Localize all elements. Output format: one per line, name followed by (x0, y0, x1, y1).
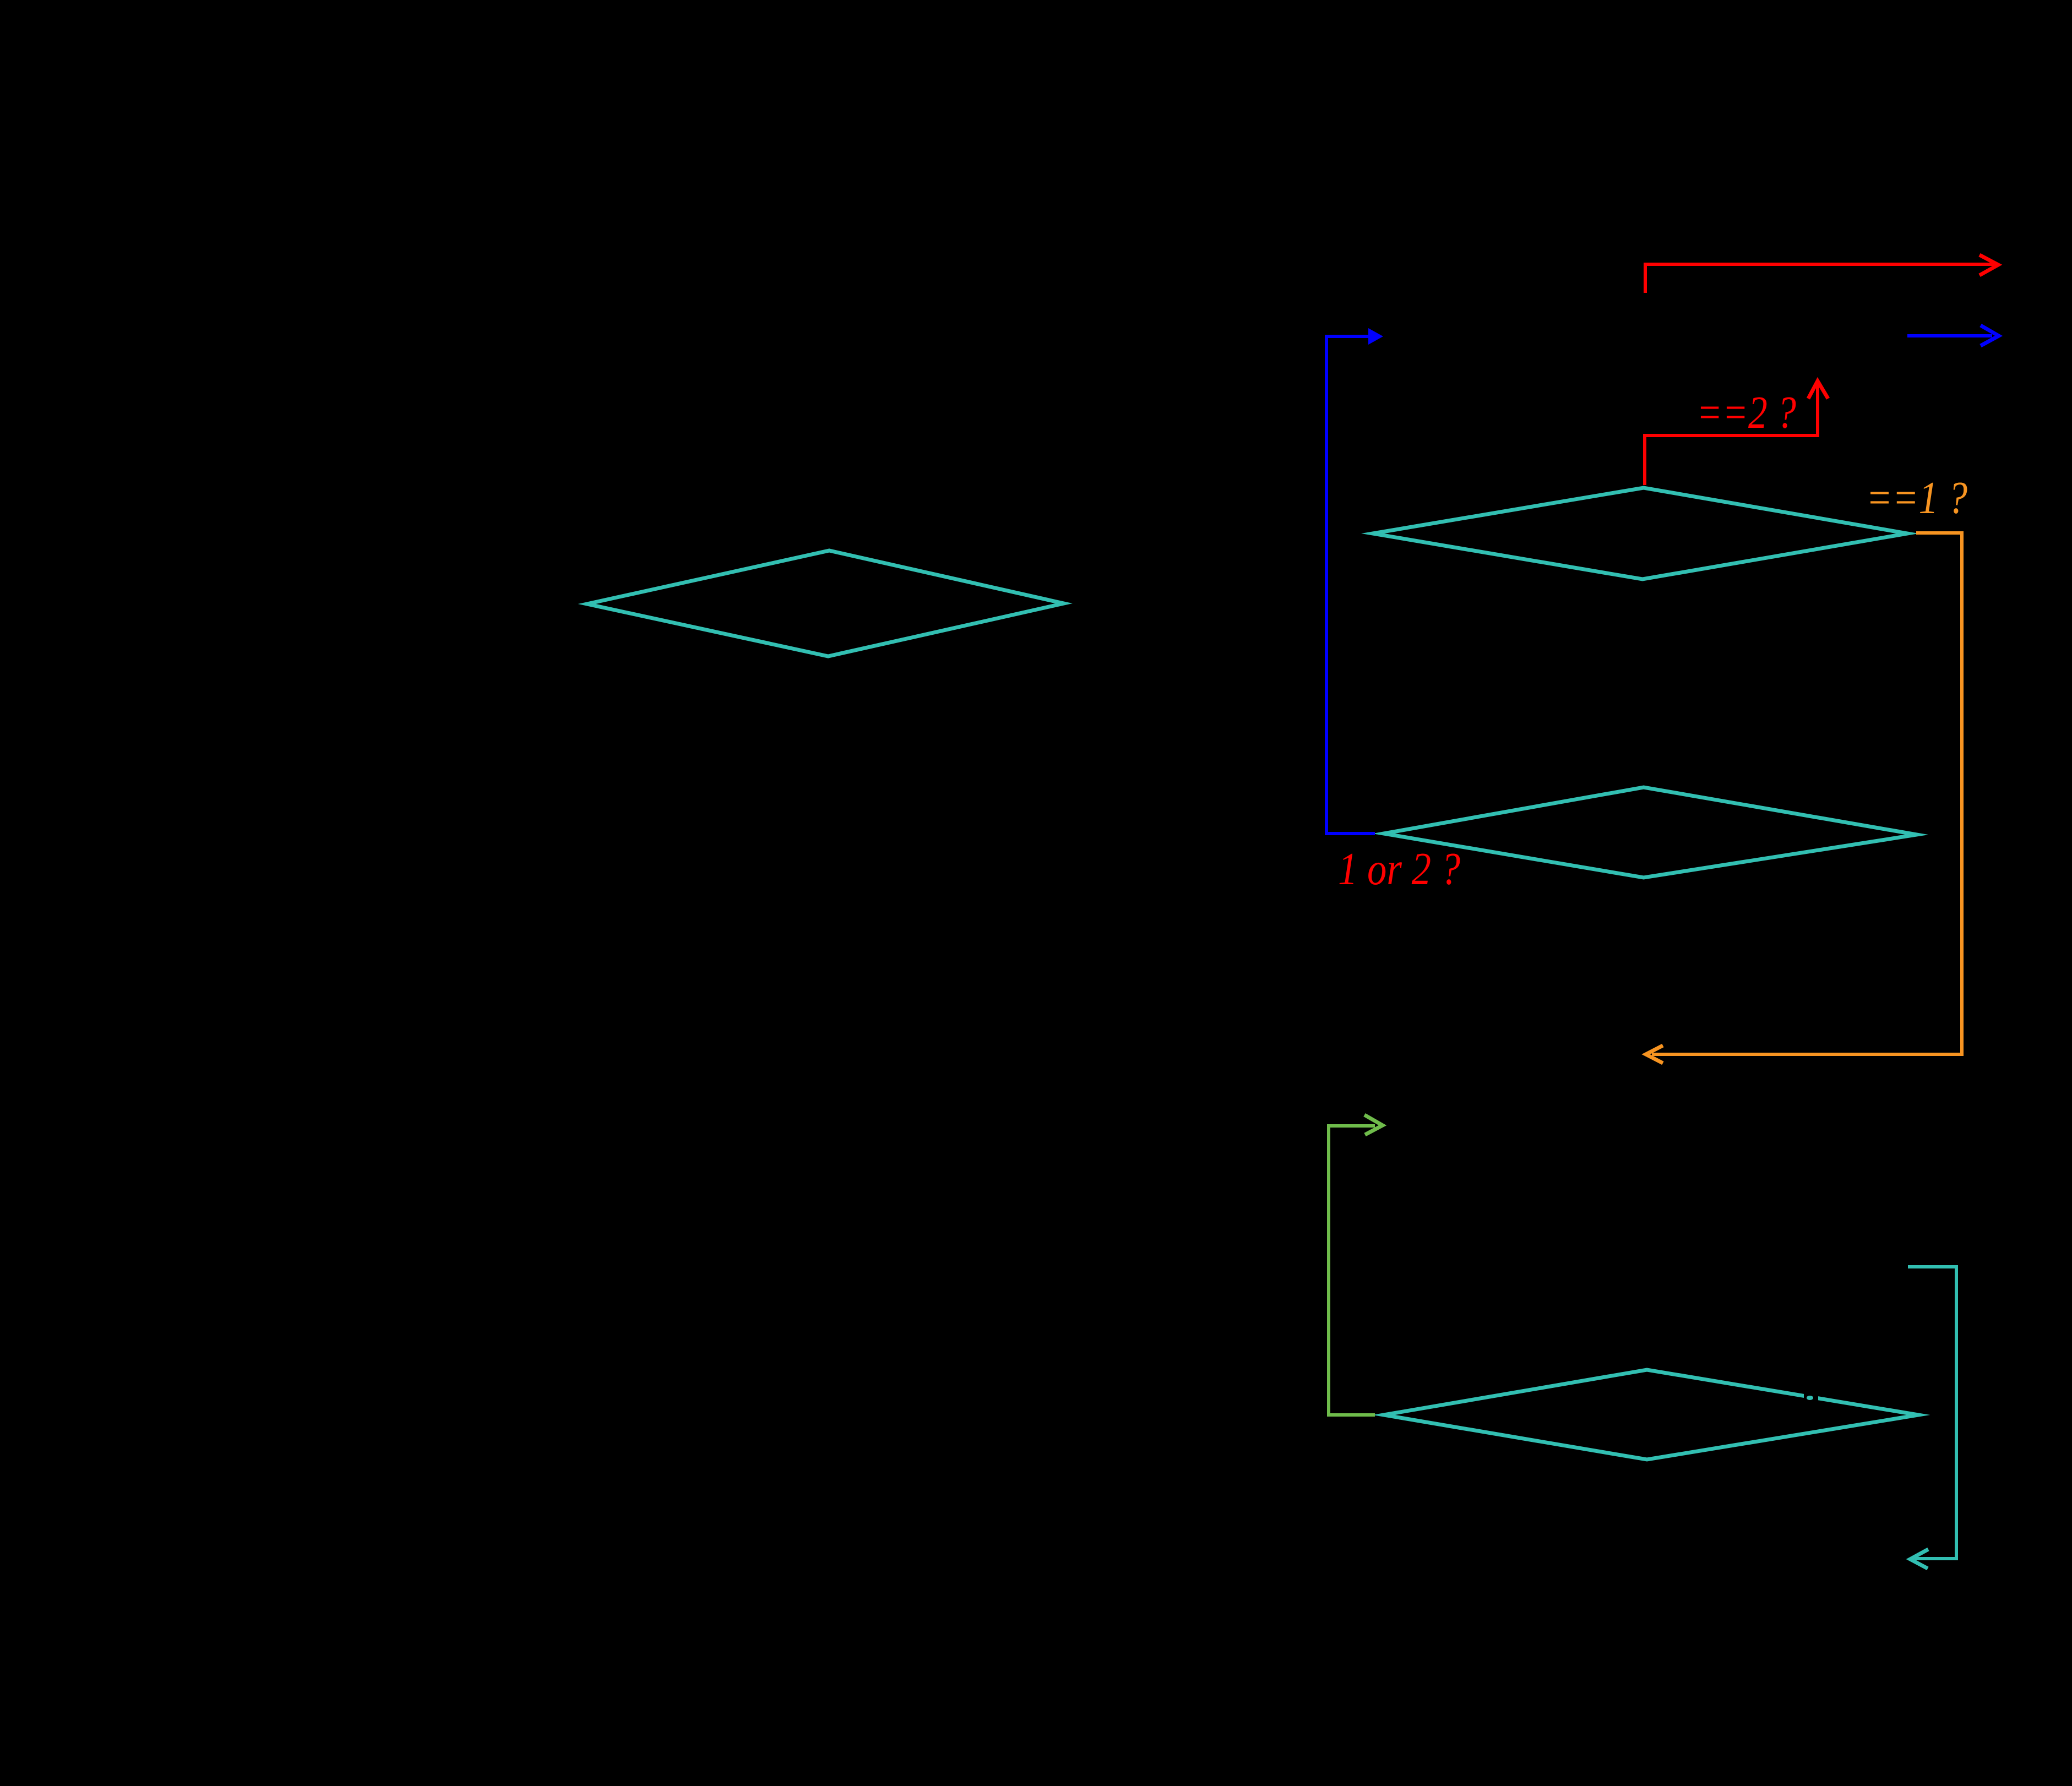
blue right arrow D (1907, 334, 1992, 337)
red arrowhead A (1979, 255, 1998, 275)
green arrowhead (1364, 1115, 1383, 1135)
svg-text:==2 ?: ==2 ? (1696, 387, 1796, 438)
green elbow arrow (from D4 left vertex up, chevron head) (1329, 1126, 1375, 1415)
blue filled triangle head C (1368, 328, 1383, 345)
decision diamond D2 (upper right) (1373, 488, 1907, 579)
blue arrowhead D (1981, 325, 1999, 346)
svg-text:==1 ?: ==1 ? (1866, 472, 1967, 524)
orange elbow arrow (==1 ? branch: right, down, left) (1652, 533, 1962, 1054)
red elbow arrow A (top, long right arrow) (1645, 264, 1994, 293)
red arrowhead B (up) (1808, 381, 1828, 399)
decision diamond D1 (left) (587, 551, 1064, 656)
decision diamond D4 (lower right) (1384, 1370, 1918, 1460)
blue elbow arrow C (from D3 left vertex up, filled head) (1326, 336, 1375, 834)
teal elbow arrow (right side of D4: down, left) (1908, 1267, 1956, 1559)
orange arrowhead (left) (1646, 1046, 1663, 1063)
red elbow arrow B (==2 ? branch, up arrow) (1645, 384, 1818, 485)
decision diamond D3 (middle right) (1384, 787, 1917, 878)
svg-text:1 or 2 ?: 1 or 2 ? (1338, 843, 1460, 895)
black glyph overlapping D4 upper-right edge (1804, 1386, 1818, 1407)
teal arrowhead (left) (1910, 1549, 1928, 1569)
